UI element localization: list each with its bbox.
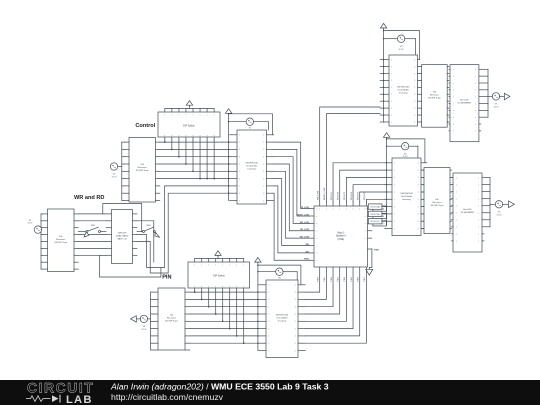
svg-text:74HC00P: 74HC00P bbox=[117, 232, 127, 234]
svg-text:2: 2 bbox=[263, 135, 264, 137]
svg-text:3.3 V: 3.3 V bbox=[112, 176, 117, 178]
svg-text:Resistors: Resistors bbox=[167, 317, 177, 320]
wire VDD rail U2 bbox=[228, 113, 246, 200]
switch SW1 (WR) bbox=[78, 225, 106, 233]
svg-text:2: 2 bbox=[263, 164, 264, 166]
resistor network R1 10k SIP (Control) bbox=[124, 138, 160, 203]
wire U2 outer supply loop bbox=[229, 114, 273, 135]
svg-text:V5: V5 bbox=[495, 104, 498, 106]
power VDD (U2) bbox=[225, 109, 231, 114]
wire U1 output to U2 row 8 bbox=[137, 193, 230, 273]
power VDD (U4 group) bbox=[380, 23, 386, 28]
svg-text:Octal Buffer: Octal Buffer bbox=[401, 195, 413, 198]
voltage source V1 3.3V (WR RD) bbox=[28, 220, 42, 234]
wire U4 outer supply loop bbox=[383, 30, 420, 60]
footer bar bbox=[0, 380, 540, 405]
svg-text:1: 1 bbox=[268, 307, 269, 309]
power VDD (U3) bbox=[255, 258, 261, 263]
wire V6 to U5 pin 20 bbox=[409, 146, 418, 158]
svg-text:3.3 V: 3.3 V bbox=[494, 106, 499, 108]
voltage source V9 3.3V (LED2) bbox=[495, 201, 502, 217]
svg-text:Mojo 3: Mojo 3 bbox=[337, 233, 345, 235]
wire rows R2 to U1 bbox=[78, 214, 106, 255]
svg-text:SN74HC540: SN74HC540 bbox=[397, 87, 410, 89]
svg-text:2: 2 bbox=[414, 87, 415, 89]
wire bus rows R1 to U2 bbox=[160, 142, 230, 179]
node Control section label bbox=[135, 123, 155, 129]
svg-text:1: 1 bbox=[391, 115, 392, 117]
svg-text:3.3 V: 3.3 V bbox=[28, 223, 33, 225]
op-amp buffer U5 SN74HC540 bbox=[385, 158, 427, 236]
ground node arrow (V9) bbox=[502, 201, 514, 208]
svg-text:1: 1 bbox=[268, 285, 269, 287]
svg-text:SN74HC540: SN74HC540 bbox=[400, 193, 413, 195]
svg-text:1: 1 bbox=[394, 228, 395, 230]
svg-text:V3: V3 bbox=[143, 326, 146, 328]
svg-text:PIN5: PIN5 bbox=[351, 276, 353, 281]
svg-text:1: 1 bbox=[394, 192, 395, 194]
svg-text:RESET_LOW: RESET_LOW bbox=[324, 188, 326, 200]
svg-text:PIN1: PIN1 bbox=[324, 276, 326, 281]
node PDOUT(A,B,C) flags at U8 bbox=[373, 206, 387, 226]
svg-text:2: 2 bbox=[263, 178, 264, 180]
svg-text:2: 2 bbox=[414, 101, 415, 103]
DIP switch S1 (Control) bbox=[158, 109, 220, 141]
svg-text:PIN: PIN bbox=[162, 275, 171, 281]
svg-text:PDOUT1: PDOUT1 bbox=[331, 191, 333, 200]
svg-text:1: 1 bbox=[239, 157, 240, 159]
svg-text:SN74HC540: SN74HC540 bbox=[246, 163, 259, 165]
svg-text:1: 1 bbox=[239, 193, 240, 195]
wire U5 outer supply loop bbox=[386, 138, 425, 163]
svg-text:2: 2 bbox=[263, 157, 264, 159]
svg-text:Alan Irwin (adragon202) / WMU: Alan Irwin (adragon202) / WMU ECE 3550 L… bbox=[110, 381, 329, 391]
svg-text:1: 1 bbox=[268, 343, 269, 345]
svg-text:Bar LED: Bar LED bbox=[463, 208, 472, 211]
svg-text:V4: V4 bbox=[400, 46, 403, 48]
voltage source V3 3.3V (PIN) bbox=[140, 315, 150, 331]
svg-text:1: 1 bbox=[394, 221, 395, 223]
voltage source V2 3.3V (Control) bbox=[110, 163, 122, 179]
resistor network R3 10k SIP (PIN) bbox=[153, 288, 190, 350]
svg-text:SN74HC540: SN74HC540 bbox=[276, 315, 289, 317]
svg-text:V1: V1 bbox=[29, 220, 32, 222]
wire V4 to U4 pin 20 bbox=[405, 39, 416, 55]
wire U8 top pins to U4 bbox=[320, 107, 380, 201]
wire V7 to U2 pin 20 bbox=[253, 122, 268, 130]
op-amp buffer U2 SN74HC540 (Control) bbox=[230, 130, 274, 204]
svg-text:PDOUT3: PDOUT3 bbox=[344, 191, 346, 200]
voltage source V5 3.3V (LED1) bbox=[492, 93, 499, 109]
svg-text:Resistors: Resistors bbox=[432, 201, 442, 204]
wire bundle U3 to U8 bottom pins bbox=[305, 267, 366, 343]
ground node arrow (SW1) bbox=[84, 232, 89, 237]
svg-text:1: 1 bbox=[268, 314, 269, 316]
resistor network R4 10k SIP bbox=[420, 65, 449, 128]
svg-text:1: 1 bbox=[268, 321, 269, 323]
node PIN0-PIN7 labels bbox=[318, 276, 367, 281]
svg-text:WE_LOW: WE_LOW bbox=[300, 237, 309, 239]
svg-text:1: 1 bbox=[239, 164, 240, 166]
svg-text:1: 1 bbox=[391, 80, 392, 82]
svg-text:1: 1 bbox=[239, 142, 240, 144]
svg-text:Resistors: Resistors bbox=[430, 94, 440, 97]
op-amp buffer U3 SN74HC540 (PIN) bbox=[259, 280, 306, 358]
svg-text:10-SEGMENT: 10-SEGMENT bbox=[461, 212, 476, 214]
ground node arrow (V3) bbox=[131, 316, 141, 322]
svg-text:SDI: SDI bbox=[305, 251, 309, 253]
svg-text:Octal Buffer: Octal Buffer bbox=[276, 317, 288, 320]
svg-text:PIN3: PIN3 bbox=[338, 276, 340, 281]
wire R1 left bus bbox=[122, 142, 124, 200]
svg-text:DIP Switch: DIP Switch bbox=[183, 124, 195, 127]
svg-text:V9: V9 bbox=[498, 212, 501, 214]
svg-text:1: 1 bbox=[268, 292, 269, 294]
node PIN section label bbox=[162, 275, 171, 281]
svg-text:2: 2 bbox=[263, 186, 264, 188]
svg-text:1: 1 bbox=[239, 149, 240, 151]
svg-text:2: 2 bbox=[414, 115, 415, 117]
svg-text:WR and RD: WR and RD bbox=[74, 195, 104, 201]
svg-text:2: 2 bbox=[263, 171, 264, 173]
svg-text:Resistors: Resistors bbox=[138, 166, 148, 169]
svg-text:2: 2 bbox=[414, 80, 415, 82]
voltage source V8 3.3V (U3) bbox=[276, 268, 283, 280]
svg-text:Control: Control bbox=[135, 123, 155, 129]
wire wrap around U1 bbox=[100, 221, 161, 277]
svg-text:PDOUT2: PDOUT2 bbox=[338, 191, 340, 200]
svg-text:WR_LOW: WR_LOW bbox=[300, 222, 309, 224]
wire VDD rail U4 bbox=[383, 28, 384, 123]
svg-text:SW2: SW2 bbox=[146, 225, 151, 227]
op-amp buffer U4 SN74HC540 bbox=[380, 55, 420, 126]
svg-text:PIN2: PIN2 bbox=[331, 276, 333, 281]
svg-text:WR_LOW: WR_LOW bbox=[318, 191, 320, 200]
svg-text:1: 1 bbox=[391, 94, 392, 96]
svg-text:RE_LOW: RE_LOW bbox=[300, 229, 309, 231]
svg-text:V8: V8 bbox=[278, 278, 280, 280]
wire U3 outer supply loop bbox=[258, 265, 301, 285]
svg-text:V2: V2 bbox=[113, 174, 116, 176]
switch SW2 (RD) bbox=[137, 225, 155, 233]
LED bar D1 10-segment bbox=[449, 65, 488, 142]
voltage source V4 3.3V (U4) bbox=[384, 35, 405, 51]
resistor network R5 10k SIP bbox=[423, 168, 452, 234]
voltage source V7 3.3V (U2) bbox=[246, 118, 253, 130]
wire S2 drops to bus bbox=[194, 291, 245, 344]
svg-text:10-SEGMENT: 10-SEGMENT bbox=[457, 103, 472, 105]
wire VDD rail U5 bbox=[386, 137, 387, 225]
node U8 left pin net labels bbox=[296, 207, 309, 261]
svg-text:Inverting: Inverting bbox=[248, 168, 257, 171]
svg-text:1: 1 bbox=[268, 328, 269, 330]
svg-text:PDOUT(A): PDOUT(A) bbox=[371, 206, 381, 209]
svg-text:2: 2 bbox=[414, 66, 415, 68]
svg-text:SIL/SIP 9-pin: SIL/SIP 9-pin bbox=[431, 205, 445, 207]
power VDD (PIN DIP) bbox=[215, 251, 221, 256]
svg-text:PINS: PINS bbox=[374, 250, 379, 252]
svg-text:QUAD NAND: QUAD NAND bbox=[116, 234, 129, 237]
svg-text:Octal Buffer: Octal Buffer bbox=[397, 89, 409, 92]
svg-text:2: 2 bbox=[414, 108, 415, 110]
svg-text:1: 1 bbox=[268, 350, 269, 352]
wire bus rows R3 to U3 bbox=[190, 292, 259, 343]
svg-text:1: 1 bbox=[394, 214, 395, 216]
svg-text:3.3 V: 3.3 V bbox=[399, 49, 404, 51]
svg-text:PDOUT(C): PDOUT(C) bbox=[370, 221, 380, 223]
DIP switch S2 (PIN) bbox=[188, 259, 250, 291]
wire VDD rail U3 bbox=[257, 262, 276, 350]
svg-text:LAB: LAB bbox=[66, 394, 93, 405]
svg-text:2: 2 bbox=[263, 200, 264, 202]
svg-text:1: 1 bbox=[391, 59, 392, 61]
svg-text:V6: V6 bbox=[404, 153, 407, 155]
svg-text:1: 1 bbox=[394, 206, 395, 208]
svg-text:SIL/SIP 9-pin: SIL/SIP 9-pin bbox=[136, 170, 150, 172]
svg-text:PINS: PINS bbox=[304, 259, 309, 261]
svg-text:Resistors: Resistors bbox=[56, 238, 66, 241]
svg-text:3.3 V: 3.3 V bbox=[141, 329, 146, 331]
svg-text:PIN7: PIN7 bbox=[364, 276, 366, 281]
svg-text:DIP Switch: DIP Switch bbox=[213, 275, 225, 278]
svg-text:PIN0: PIN0 bbox=[318, 276, 320, 281]
svg-text:1: 1 bbox=[391, 122, 392, 124]
footer title text bbox=[110, 381, 329, 402]
resistor network R2 10k SIP (WR RD) bbox=[43, 209, 79, 272]
svg-text:1: 1 bbox=[394, 163, 395, 165]
wire PINS net to ground bbox=[368, 249, 380, 269]
voltage source V6 3.3V (U5) bbox=[387, 143, 409, 159]
wire U8 top pins to U5 bbox=[333, 163, 385, 202]
power VDD (Control DIP) bbox=[186, 101, 192, 106]
svg-text:1: 1 bbox=[239, 171, 240, 173]
svg-text:PIN4: PIN4 bbox=[344, 276, 346, 281]
svg-text:1: 1 bbox=[391, 101, 392, 103]
svg-text:1: 1 bbox=[391, 87, 392, 89]
svg-text:GATE +5V: GATE +5V bbox=[117, 237, 127, 240]
chip U8 Mojo Spartan-6 FPGA bbox=[310, 201, 372, 267]
ground arrow (U8) bbox=[366, 269, 373, 275]
svg-text:RESET_LOW: RESET_LOW bbox=[296, 214, 309, 216]
svg-text:FB_LOW: FB_LOW bbox=[300, 207, 309, 209]
svg-text:1: 1 bbox=[268, 336, 269, 338]
svg-text:PDOUT4: PDOUT4 bbox=[351, 191, 353, 200]
wire VDD bus above S2 bbox=[195, 255, 244, 258]
svg-text:PDOUT(B): PDOUT(B) bbox=[371, 214, 381, 216]
node U8 top pin labels bbox=[318, 188, 367, 200]
svg-text:2: 2 bbox=[414, 94, 415, 96]
svg-text:SW1: SW1 bbox=[91, 225, 96, 227]
svg-text:Inverting: Inverting bbox=[278, 320, 287, 323]
svg-text:2: 2 bbox=[414, 59, 415, 61]
svg-text:PIN6: PIN6 bbox=[358, 276, 360, 281]
wire bundle U2 to U8 left pins bbox=[274, 142, 310, 260]
svg-text:1: 1 bbox=[239, 200, 240, 202]
logic gate U1 74HC00 quad NAND bbox=[106, 210, 137, 264]
svg-text:Octal Buffer: Octal Buffer bbox=[246, 165, 258, 168]
svg-text:SIL/SIP 9-pin: SIL/SIP 9-pin bbox=[428, 98, 442, 100]
wire V8 to U3 pin 20 bbox=[283, 272, 297, 280]
svg-text:Inverting: Inverting bbox=[399, 92, 408, 95]
svg-text:1: 1 bbox=[239, 186, 240, 188]
svg-text:1: 1 bbox=[394, 185, 395, 187]
ground node arrow (SW2) bbox=[155, 232, 160, 237]
svg-text:1: 1 bbox=[391, 73, 392, 75]
svg-text:Bar LED: Bar LED bbox=[460, 99, 469, 102]
ground node arrow (V5) bbox=[499, 93, 509, 100]
svg-text:(XiSE): (XiSE) bbox=[337, 239, 344, 241]
svg-text:2: 2 bbox=[263, 193, 264, 195]
node PDOUT(A,B,C) flags at U5 bbox=[368, 204, 384, 224]
LED bar D2 10-segment bbox=[452, 173, 491, 252]
svg-text:PDOUT5: PDOUT5 bbox=[358, 191, 360, 200]
svg-text:2: 2 bbox=[263, 149, 264, 151]
CircuitLab logo bbox=[27, 380, 95, 405]
svg-text:1: 1 bbox=[394, 170, 395, 172]
svg-text:1: 1 bbox=[268, 299, 269, 301]
wire VDD bus above S1 bbox=[165, 105, 214, 108]
svg-text:1: 1 bbox=[391, 108, 392, 110]
svg-text:1: 1 bbox=[394, 177, 395, 179]
svg-text:2: 2 bbox=[263, 142, 264, 144]
svg-text:V7: V7 bbox=[249, 128, 251, 130]
svg-text:2: 2 bbox=[414, 73, 415, 75]
power VDD (U5 group) bbox=[383, 133, 389, 138]
wire U1 output to U2 row 7 bbox=[137, 186, 230, 268]
svg-text:Inverting: Inverting bbox=[402, 198, 411, 201]
wire R3 left bus bbox=[151, 292, 154, 350]
svg-text:1: 1 bbox=[239, 135, 240, 137]
svg-text:3.3 V: 3.3 V bbox=[497, 214, 502, 216]
svg-text:1: 1 bbox=[394, 199, 395, 201]
wire S1 drops to bus bbox=[164, 140, 215, 179]
wire loop over U1 bbox=[103, 204, 143, 232]
svg-text:SIL/SIP 9-pin: SIL/SIP 9-pin bbox=[54, 242, 68, 244]
svg-text:http://circuitlab.com/cnemuzv: http://circuitlab.com/cnemuzv bbox=[111, 392, 224, 402]
node WR and RD section label bbox=[74, 195, 104, 201]
svg-text:2: 2 bbox=[414, 122, 415, 124]
svg-text:Spartan 6: Spartan 6 bbox=[336, 235, 347, 238]
svg-text:1: 1 bbox=[239, 178, 240, 180]
wire LED2 common rail bbox=[490, 178, 496, 227]
wire R2 left bus bbox=[41, 214, 43, 269]
wire LED1 common rail bbox=[488, 69, 493, 117]
svg-text:1: 1 bbox=[391, 66, 392, 68]
svg-text:SIL/SIP 9-pin: SIL/SIP 9-pin bbox=[165, 321, 179, 323]
